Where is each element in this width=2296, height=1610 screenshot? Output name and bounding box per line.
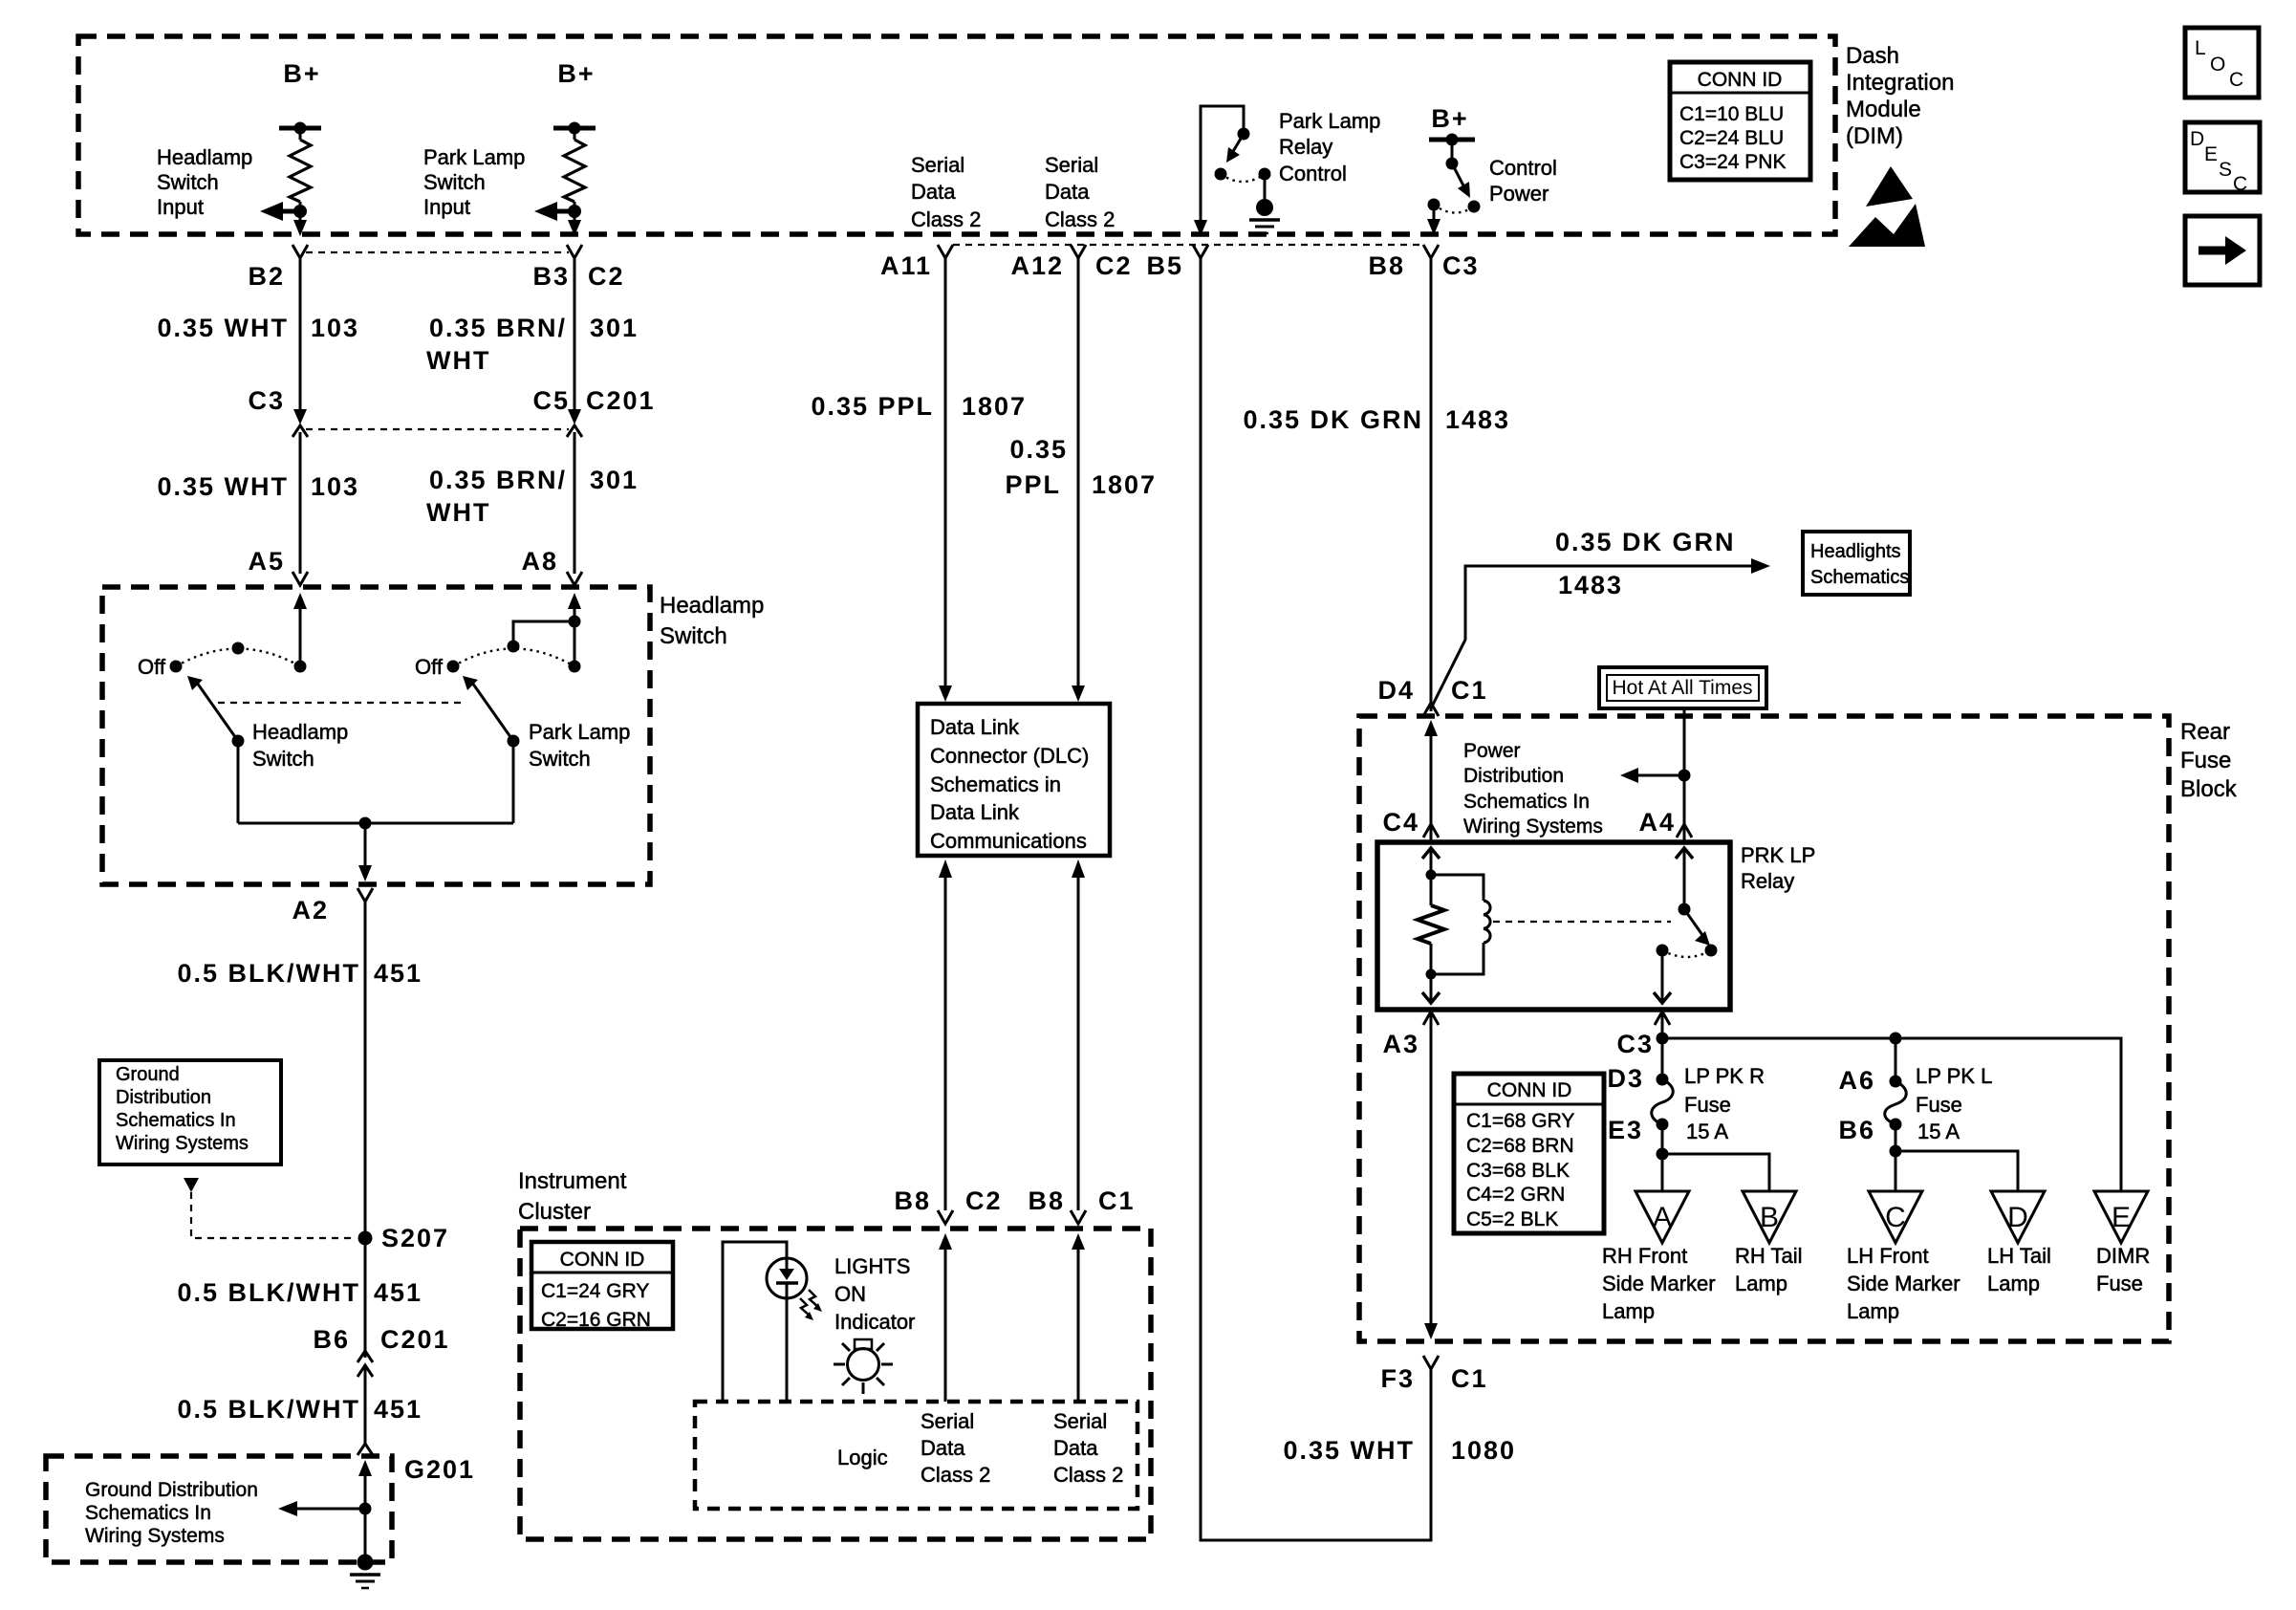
wire: switch common to A2 pin [238,817,513,882]
label: DIMR Fuse [2096,1244,2150,1295]
resistor: park lamp switch input pull-up [564,128,585,222]
svg-text:Relay: Relay [1741,869,1794,893]
label: Serial Data Class 2 (logic left) [921,1409,990,1487]
fuse: LP PK L Fuse 15 A [1838,1038,1906,1144]
svg-text:B+: B+ [557,59,595,88]
label: Headlamp Switch Input [157,145,252,219]
lamp: indicator bulb symbol [834,1339,893,1394]
svg-text:C1=68 GRY: C1=68 GRY [1466,1110,1574,1132]
svg-text:A5: A5 [248,547,285,576]
icon: ESD sensitivity symbol [1849,166,1925,247]
svg-text:D4: D4 [1377,676,1415,705]
LED: lights on indicator diode [767,1257,822,1320]
connector pin: C3 fork below relay [1616,1012,1670,1058]
node: B+ feed for park lamp switch input [553,59,596,135]
wire: 0.35 PPL 1807 serial data A12 to DLC [1005,258,1157,702]
svg-text:0.35 DK GRN: 0.35 DK GRN [1555,528,1736,556]
svg-text:Lamp: Lamp [1987,1272,2040,1295]
wire: LP PK L fuse output to connectors C and D [1890,1124,2019,1191]
svg-text:DIMR: DIMR [2096,1244,2150,1268]
wire: park lamp switch A8 internal up arrow and L-branch [508,593,582,666]
svg-text:C2: C2 [1095,251,1133,280]
svg-text:103: 103 [311,314,359,342]
svg-text:CONN ID: CONN ID [1487,1079,1572,1101]
module box: Rear Fuse Block dashed outline [1359,716,2169,1341]
label: RH Tail Lamp [1735,1244,1803,1295]
svg-text:Headlamp: Headlamp [252,720,348,744]
connector pin: C4 fork [1382,808,1439,838]
icon: DESC corner box [2185,122,2260,195]
relay box: PRK LP Relay [1377,842,1815,1010]
reference box: Data Link Connector (DLC) Schematics in Data Link Communications [918,704,1110,856]
label: Serial Data Class 2 (A12) [1045,153,1115,231]
fuse: LP PK R Fuse 15 A [1607,1064,1673,1144]
relay switch: PRK LP relay armature [1654,848,1718,1003]
label: RH Front Side Marker Lamp [1602,1244,1716,1323]
svg-text:0.35 BRN/: 0.35 BRN/ [429,314,567,342]
svg-text:Fuse: Fuse [2180,748,2231,773]
svg-text:C1: C1 [1098,1186,1136,1215]
svg-text:C1=10 BLU: C1=10 BLU [1679,103,1784,125]
wire: dashed reference link to S207 [184,1178,356,1238]
svg-text:15 A: 15 A [1686,1120,1728,1143]
wire: LP PK R fuse output to connectors A and B [1657,1124,1770,1191]
svg-text:Ground Distribution: Ground Distribution [85,1479,258,1501]
connector pin: B8 C3 fork [1368,245,1479,280]
svg-text:0.35 PPL: 0.35 PPL [811,392,934,421]
svg-text:0.35 DK GRN: 0.35 DK GRN [1243,405,1423,434]
label: LP PK R Fuse 15 A [1684,1064,1765,1143]
svg-text:Indicator: Indicator [834,1310,915,1334]
svg-text:C5=2 BLK: C5=2 BLK [1466,1208,1558,1230]
svg-text:C201: C201 [380,1325,450,1354]
connector pin: B5 fork [1146,245,1208,280]
resistor: headlamp switch input pull-up [290,128,311,222]
wire: LED cathode to logic box [786,1297,789,1402]
connector: triangle D [1991,1191,2045,1243]
wire: 0.35 WHT 103 from DIM B2 to C201 [157,258,359,411]
svg-text:RH Tail: RH Tail [1735,1244,1803,1268]
svg-text:C2=68 BRN: C2=68 BRN [1466,1135,1574,1157]
svg-text:15 A: 15 A [1917,1120,1960,1143]
svg-text:Data Link: Data Link [930,800,1020,824]
svg-text:A12: A12 [1010,251,1064,280]
node: B+ feed for control power [1429,104,1475,146]
wire: park lamp relay control B5 long run [1201,258,1431,1540]
svg-text:Cluster: Cluster [518,1199,591,1225]
wire: serial data wire into logic (left) with up arrow [939,1233,952,1402]
svg-text:1483: 1483 [1445,405,1510,434]
label: Headlamp Switch title [660,593,764,649]
label: Park Lamp Relay Control [1279,109,1380,185]
label: LH Front Side Marker Lamp [1847,1244,1960,1323]
svg-text:Block: Block [2180,776,2238,802]
svg-text:F3: F3 [1380,1364,1415,1393]
label: Serial Data Class 2 (A11) [911,153,981,231]
label: Serial Data Class 2 (logic right) [1053,1409,1123,1487]
label: Control Power [1489,156,1557,206]
wire: park lamp input down arrow at DIM pin B3 [568,220,581,236]
svg-text:E: E [2112,1202,2131,1233]
svg-text:Off: Off [138,655,166,679]
svg-text:301: 301 [590,314,639,342]
svg-text:Schematics in: Schematics in [930,772,1061,796]
svg-text:B6: B6 [1838,1116,1875,1144]
wire: A3 relay coil return to F3 [1382,1012,1439,1339]
svg-text:C3=68 BLK: C3=68 BLK [1466,1160,1570,1182]
table: Rear Fuse Block CONN ID [1454,1074,1604,1233]
svg-text:451: 451 [374,959,422,988]
svg-text:Power: Power [1489,182,1549,206]
label: 0.35 WHT 1080 [1283,1436,1516,1465]
wire: 0.35 WHT 103 from C201 to headlamp switch A5 [157,432,359,574]
svg-text:LH Front: LH Front [1847,1244,1929,1268]
svg-text:Headlamp: Headlamp [157,145,252,169]
svg-text:C5: C5 [532,386,570,415]
connector pin: A5 fork at headlamp switch [248,547,308,585]
svg-text:301: 301 [590,466,639,494]
connector: triangle E [2094,1191,2148,1243]
svg-text:Ground: Ground [116,1064,180,1085]
relay coil: PRK LP relay coil and resistor [1418,848,1490,1003]
svg-text:B2: B2 [248,262,285,291]
svg-text:Switch: Switch [660,623,727,649]
svg-text:A6: A6 [1838,1066,1875,1095]
svg-text:Hot At All Times: Hot At All Times [1612,677,1752,699]
svg-text:Schematics In: Schematics In [85,1502,211,1524]
node: splice S207 [358,1224,450,1252]
svg-text:Input: Input [423,195,470,219]
svg-text:B+: B+ [1431,104,1468,133]
module box: Headlamp Switch dashed outline [102,587,650,884]
svg-text:Park Lamp: Park Lamp [1279,109,1380,133]
svg-text:C: C [2233,173,2247,195]
node: B+ feed for headlamp switch input [279,59,321,135]
wire: headlamp switch input tap arrow [260,202,307,221]
svg-text:Schematics In: Schematics In [1463,791,1590,813]
svg-text:Lamp: Lamp [1602,1299,1655,1323]
connector pin: A12 fork [1010,245,1132,280]
label: LIGHTS ON Indicator [834,1254,915,1334]
svg-text:C3=24 PNK: C3=24 PNK [1679,151,1786,173]
label: Power Distribution Schematics In Wiring Systems [1463,740,1603,838]
svg-text:L: L [2195,37,2206,59]
svg-text:B6: B6 [313,1325,350,1354]
connector row: thin dashed in-line connector boundary (C201 level) [306,428,569,430]
svg-text:E3: E3 [1608,1116,1643,1144]
svg-text:S207: S207 [381,1224,449,1252]
wire: hot at all times feed with left reference arrow [1620,708,1691,841]
module box: Instrument Cluster dashed outline [520,1229,1151,1539]
svg-text:Fuse: Fuse [2096,1272,2143,1295]
svg-text:Rear: Rear [2180,719,2230,745]
wire: control power down arrow at DIM pin B8 [1427,205,1440,235]
svg-text:C201: C201 [586,386,656,415]
svg-text:Side Marker: Side Marker [1847,1272,1960,1295]
svg-text:Switch: Switch [423,170,486,194]
svg-text:A4: A4 [1638,808,1676,837]
svg-text:Connector (DLC): Connector (DLC) [930,744,1089,768]
label: LH Tail Lamp [1987,1244,2051,1295]
svg-text:Schematics: Schematics [1810,567,1909,588]
wire: headlamp switch A5 internal up arrow [293,593,307,666]
connector pin: B6 of C201 double caret [313,1325,449,1377]
connector pin: A4 fork [1638,808,1692,838]
wire: serial data from instrument cluster up to DLC (left) [939,859,952,1210]
svg-text:Serial: Serial [921,1409,974,1433]
connector pin: A2 caret below headlamp switch [292,888,373,925]
svg-text:C2: C2 [588,262,625,291]
svg-text:A8: A8 [521,547,558,576]
svg-text:0.5 BLK/WHT: 0.5 BLK/WHT [177,1395,360,1424]
svg-text:0.35 WHT: 0.35 WHT [157,314,289,342]
svg-text:S: S [2219,159,2232,181]
svg-text:D: D [2190,128,2204,150]
svg-text:1080: 1080 [1451,1436,1516,1465]
svg-text:Fuse: Fuse [1684,1093,1731,1117]
svg-text:451: 451 [374,1278,422,1307]
wire: G201 internal up arrow and splice [278,1460,372,1558]
svg-text:Distribution: Distribution [1463,765,1564,787]
reference box: Headlights Schematics [1803,532,1910,595]
svg-text:PRK LP: PRK LP [1741,843,1815,867]
svg-text:PPL: PPL [1005,470,1061,499]
svg-text:C3: C3 [1616,1030,1654,1058]
wire: park lamp switch input tap arrow [534,202,581,221]
svg-text:Serial: Serial [911,153,964,177]
svg-text:103: 103 [311,472,359,501]
svg-text:0.35 WHT: 0.35 WHT [1283,1436,1415,1465]
connector pin: C5 of C201 with down arrow and caret [532,386,655,437]
svg-text:A2: A2 [292,896,329,925]
svg-text:C1: C1 [1451,676,1488,705]
svg-text:Integration: Integration [1846,70,1954,96]
svg-text:Side Marker: Side Marker [1602,1272,1716,1295]
svg-text:Class 2: Class 2 [921,1463,990,1487]
svg-text:Class 2: Class 2 [1053,1463,1123,1487]
wire: branch to headlights schematics with arrow [1431,528,1770,708]
svg-text:O: O [2210,54,2225,76]
svg-text:1807: 1807 [962,392,1027,421]
svg-text:Data: Data [1045,180,1090,204]
connector pin: A8 fork at headlamp switch [521,547,582,585]
svg-text:LH Tail: LH Tail [1987,1244,2051,1268]
svg-text:C1=24 GRY: C1=24 GRY [541,1280,649,1302]
wire: fused feed distribution bus [1657,1012,2122,1191]
svg-text:Lamp: Lamp [1735,1272,1787,1295]
svg-text:Wiring Systems: Wiring Systems [1463,816,1603,838]
label: Rear Fuse Block title [2180,719,2238,802]
svg-text:C2=16 GRN: C2=16 GRN [541,1309,651,1331]
ground: park lamp relay control internal ground [1249,174,1280,233]
label: Instrument Cluster title [518,1168,627,1225]
svg-text:E: E [2204,143,2218,165]
label: LP PK L Fuse 15 A [1916,1064,1992,1143]
svg-text:Data Link: Data Link [930,715,1020,739]
svg-text:Off: Off [415,655,444,679]
wire: serial data wire into logic (right) with up arrow [1072,1233,1085,1402]
svg-text:LIGHTS: LIGHTS [834,1254,910,1278]
module box: Dash Integration Module (DIM) dashed outline [78,36,1835,234]
svg-text:Distribution: Distribution [116,1087,211,1108]
svg-text:Schematics In: Schematics In [116,1110,236,1131]
connector pin: C3 of C201 with down arrow and caret [248,386,308,437]
switch: headlamp switch contacts and lever [138,642,306,824]
svg-text:Switch: Switch [529,747,591,771]
svg-text:C4: C4 [1382,808,1419,837]
icon: arrow corner box [2185,216,2260,285]
svg-text:0.5 BLK/WHT: 0.5 BLK/WHT [177,959,360,988]
connector pin: B8 C2 fork at instrument cluster [894,1186,1002,1224]
svg-text:(DIM): (DIM) [1846,123,1903,149]
svg-text:1807: 1807 [1092,470,1157,499]
switch: park lamp relay control driver in DIM [1194,106,1271,236]
wire: serial data from instrument cluster up to DLC (right) [1072,859,1085,1210]
svg-text:A11: A11 [880,251,932,280]
label: Headlamp Switch (lever name) [252,720,348,771]
svg-text:Park Lamp: Park Lamp [423,145,525,169]
connector: triangle A [1635,1191,1689,1243]
svg-text:C: C [2229,69,2243,91]
wire: D4 to relay coil with up arrow [1424,720,1438,841]
svg-text:Data: Data [911,180,956,204]
svg-text:Communications: Communications [930,829,1087,853]
svg-text:B8: B8 [1368,251,1405,280]
svg-text:B8: B8 [894,1186,931,1215]
connector: triangle B [1743,1191,1796,1243]
svg-text:Wiring Systems: Wiring Systems [85,1525,225,1547]
linkage: relay actuation dashed line [1493,921,1671,923]
svg-text:0.35 BRN/: 0.35 BRN/ [429,466,567,494]
connector pin: B3 fork symbol [532,245,624,291]
svg-text:Logic: Logic [837,1446,888,1469]
wire: 0.5 BLK/WHT 451 from S207 to C201 B6 [177,1238,422,1358]
wire: LED indicator supply bracket [723,1242,787,1402]
svg-text:C4=2 GRN: C4=2 GRN [1466,1184,1565,1206]
label: Dash Integration Module (DIM) title [1846,43,1954,149]
svg-text:A: A [1653,1202,1672,1233]
svg-text:Instrument: Instrument [518,1168,627,1194]
wire: 0.5 BLK/WHT 451 from C201 to G201 [177,1365,422,1444]
connector row: thin dashed in-line connector boundary (top) [306,251,569,253]
svg-text:CONN ID: CONN ID [1698,69,1783,91]
linkage: mechanical link dashed line between switches [218,702,463,704]
svg-text:ON: ON [834,1282,866,1306]
table: DIM CONN ID [1670,62,1810,180]
svg-text:Lamp: Lamp [1847,1299,1899,1323]
icon: LOC corner box [2185,28,2259,98]
wire: 0.35 BRN/WHT 301 from C201 to park lamp switch A8 [426,432,639,574]
svg-text:Module: Module [1846,97,1921,122]
svg-text:0.35: 0.35 [1009,435,1068,464]
power flag box: Hot At All Times [1599,667,1766,708]
wire: 0.35 PPL 1807 serial data A11 to DLC [811,258,1027,702]
svg-text:C2=24 BLU: C2=24 BLU [1679,127,1784,149]
svg-text:Power: Power [1463,740,1521,762]
svg-text:Control: Control [1279,162,1347,185]
svg-text:C2: C2 [965,1186,1003,1215]
switch: control power driver in DIM [1428,140,1481,213]
svg-text:RH Front: RH Front [1602,1244,1687,1268]
connector pin: A11 fork [880,245,953,280]
svg-text:CONN ID: CONN ID [560,1249,645,1271]
svg-text:B5: B5 [1146,251,1183,280]
svg-text:C3: C3 [1442,251,1480,280]
svg-text:Class 2: Class 2 [1045,207,1115,231]
label: Ground Distribution Schematics In Wiring Systems (G201) [85,1479,258,1547]
label: Park Lamp Switch (lever name) [529,720,630,771]
svg-text:C1: C1 [1451,1364,1488,1393]
svg-text:B3: B3 [532,262,570,291]
svg-text:451: 451 [374,1395,422,1424]
connector pin: D4 C1 fork at rear fuse block [1377,676,1487,716]
svg-text:A3: A3 [1382,1030,1419,1058]
svg-text:Park Lamp: Park Lamp [529,720,630,744]
svg-text:B+: B+ [283,59,320,88]
svg-text:0.5 BLK/WHT: 0.5 BLK/WHT [177,1278,360,1307]
svg-text:Headlights: Headlights [1810,541,1901,562]
module box: Logic dashed inner box [695,1402,1137,1509]
svg-text:LP PK R: LP PK R [1684,1064,1765,1088]
svg-text:LP PK L: LP PK L [1916,1064,1992,1088]
svg-text:Fuse: Fuse [1916,1093,1962,1117]
svg-text:WHT: WHT [426,346,490,375]
table: Instrument Cluster CONN ID [531,1242,673,1331]
svg-text:D3: D3 [1607,1064,1644,1093]
svg-text:C3: C3 [248,386,285,415]
svg-text:0.35 WHT: 0.35 WHT [157,472,289,501]
svg-text:Switch: Switch [157,170,219,194]
svg-text:Data: Data [1053,1436,1098,1460]
wire: 0.5 BLK/WHT 451 ground wire from A2 to S207 [177,902,422,1238]
svg-text:Serial: Serial [1053,1409,1107,1433]
svg-text:Control: Control [1489,156,1557,180]
switch: park lamp switch contacts and lever [415,649,580,824]
svg-text:Input: Input [157,195,204,219]
svg-text:Serial: Serial [1045,153,1098,177]
reference box: Ground Distribution Schematics In Wiring Systems [99,1060,281,1164]
ground: G201 ground symbol [350,1555,380,1589]
connector: triangle C [1869,1191,1922,1243]
svg-text:Dash: Dash [1846,43,1899,69]
wire: 0.35 DK GRN 1483 from DIM C3 to rear fuse block D4 [1243,258,1510,711]
connector pin: B2 fork symbol [248,245,308,291]
svg-text:Relay: Relay [1279,135,1332,159]
svg-text:WHT: WHT [426,498,490,527]
svg-text:Wiring Systems: Wiring Systems [116,1133,249,1154]
label: Park Lamp Switch Input [423,145,525,219]
svg-text:1483: 1483 [1558,571,1623,599]
svg-text:C: C [1885,1202,1906,1233]
svg-text:B8: B8 [1028,1186,1065,1215]
connector pin: B8 C1 fork at instrument cluster [1028,1186,1135,1224]
svg-text:Switch: Switch [252,747,314,771]
svg-text:Headlamp: Headlamp [660,593,764,619]
wire: 0.35 BRN/WHT 301 from DIM B3 to C201 [426,258,639,411]
svg-text:G201: G201 [404,1455,475,1484]
svg-text:Class 2: Class 2 [911,207,981,231]
wire: headlamp input down arrow at DIM pin B2 [293,220,307,236]
connector pin: caret above G201 box [357,1444,373,1455]
connector pin: F3 C1 fork below rear fuse block [1380,1356,1487,1393]
svg-text:D: D [2007,1202,2028,1233]
svg-text:B: B [1760,1202,1779,1233]
connector row: thin dashed boundary under DIM right span [953,244,1423,246]
module box: G201 ground dashed outline [46,1455,475,1562]
svg-text:Data: Data [921,1436,965,1460]
